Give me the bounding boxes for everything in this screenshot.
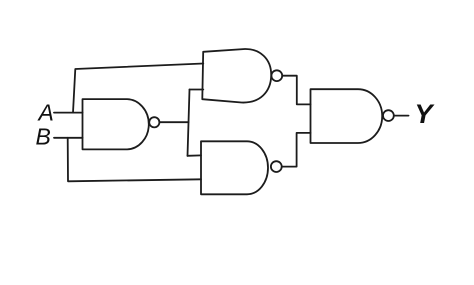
wire node to U3 upper input xyxy=(188,154,202,156)
svg-text:Y: Y xyxy=(415,99,436,129)
wire B branch down to gate U3 xyxy=(68,138,201,182)
NAND gate U2 bubble xyxy=(271,70,282,81)
wire vertical node from U1 output xyxy=(188,90,190,156)
wire A input xyxy=(54,112,83,114)
wire U2 output to U4 upper input xyxy=(283,76,311,105)
wire U1 output to vertical node xyxy=(160,121,189,123)
NAND gate U1 bubble xyxy=(149,117,159,127)
svg-text:B: B xyxy=(36,124,51,150)
NAND gate U2 body xyxy=(202,49,271,103)
NAND gate U3 bubble xyxy=(271,161,282,172)
NAND gate U1 body xyxy=(83,99,149,149)
wire U3 output to U4 lower input xyxy=(282,133,311,167)
NAND gate U3 body xyxy=(201,141,268,194)
NAND gate U4 bubble xyxy=(383,110,394,121)
wire A branch up to gate U2 xyxy=(73,64,203,113)
svg-text:A: A xyxy=(37,100,54,126)
wire node to U2 lower input xyxy=(190,89,204,91)
wire B input xyxy=(54,137,83,139)
wire Y output xyxy=(394,115,409,117)
NAND gate U4 body xyxy=(311,89,383,143)
